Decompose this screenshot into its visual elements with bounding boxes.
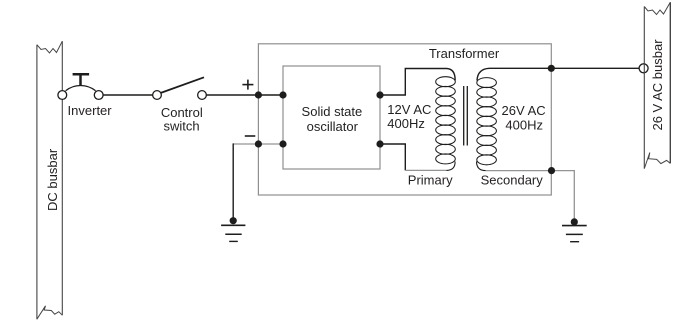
node + on oscillator edge [279,91,286,98]
minus wire to ground [232,143,234,218]
node oscillator right bottom [376,140,383,147]
svg-text:26V AC: 26V AC [502,103,546,118]
node - on box edge [255,140,262,147]
wire oscillator to primary bottom [380,144,405,170]
inverter T handle [79,74,82,85]
svg-text:12V AC: 12V AC [387,102,431,117]
node + on box edge [255,91,262,98]
svg-text:oscillator: oscillator [307,119,359,134]
transformer core [463,86,465,146]
inverter arc [66,86,96,91]
wire secondary bottom to ground (gray) [486,171,575,219]
minus wire (gray) [233,143,283,145]
plus sign [242,80,253,90]
svg-text:Transformer: Transformer [429,46,500,61]
wire primary bottom curve [447,162,456,171]
svg-text:DC busbar: DC busbar [45,148,60,211]
control switch terminal left [153,91,162,100]
transformer box [258,44,551,195]
inverter terminal left [58,91,67,100]
ground (right) [562,218,587,241]
transformer secondary coil [477,78,497,165]
control switch blade [161,77,204,93]
node secondary bottom on box edge [548,167,555,174]
svg-text:Secondary: Secondary [481,172,544,187]
26 V AC busbar [644,2,670,168]
control switch terminal right [198,91,207,100]
node secondary top on box edge [548,65,555,72]
inverter terminal right [94,91,103,100]
svg-text:400Hz: 400Hz [505,117,543,132]
node - on oscillator edge [279,140,286,147]
minus sign [245,135,256,137]
solid state oscillator U1 [283,66,380,169]
node oscillator right top [376,91,383,98]
svg-text:Solid state: Solid state [302,104,363,119]
wire control switch to oscillator (+) [206,94,283,96]
svg-text:switch: switch [163,118,199,133]
wire secondary top to 26V busbar [477,68,639,80]
svg-text:26 V AC busbar: 26 V AC busbar [650,39,665,131]
transformer primary coil [436,77,456,164]
svg-text:400Hz: 400Hz [387,116,425,131]
wire primary bottom (gray) [405,169,446,171]
26V AC busbar terminal [639,64,648,73]
wire secondary bottom exit curve [477,162,486,171]
wire oscillator to primary top [380,69,455,96]
svg-text:Inverter: Inverter [68,103,113,118]
wire inverter to control switch [103,94,153,96]
svg-text:Primary: Primary [408,172,453,187]
DC busbar [37,41,62,319]
ground (left) [221,217,245,241]
